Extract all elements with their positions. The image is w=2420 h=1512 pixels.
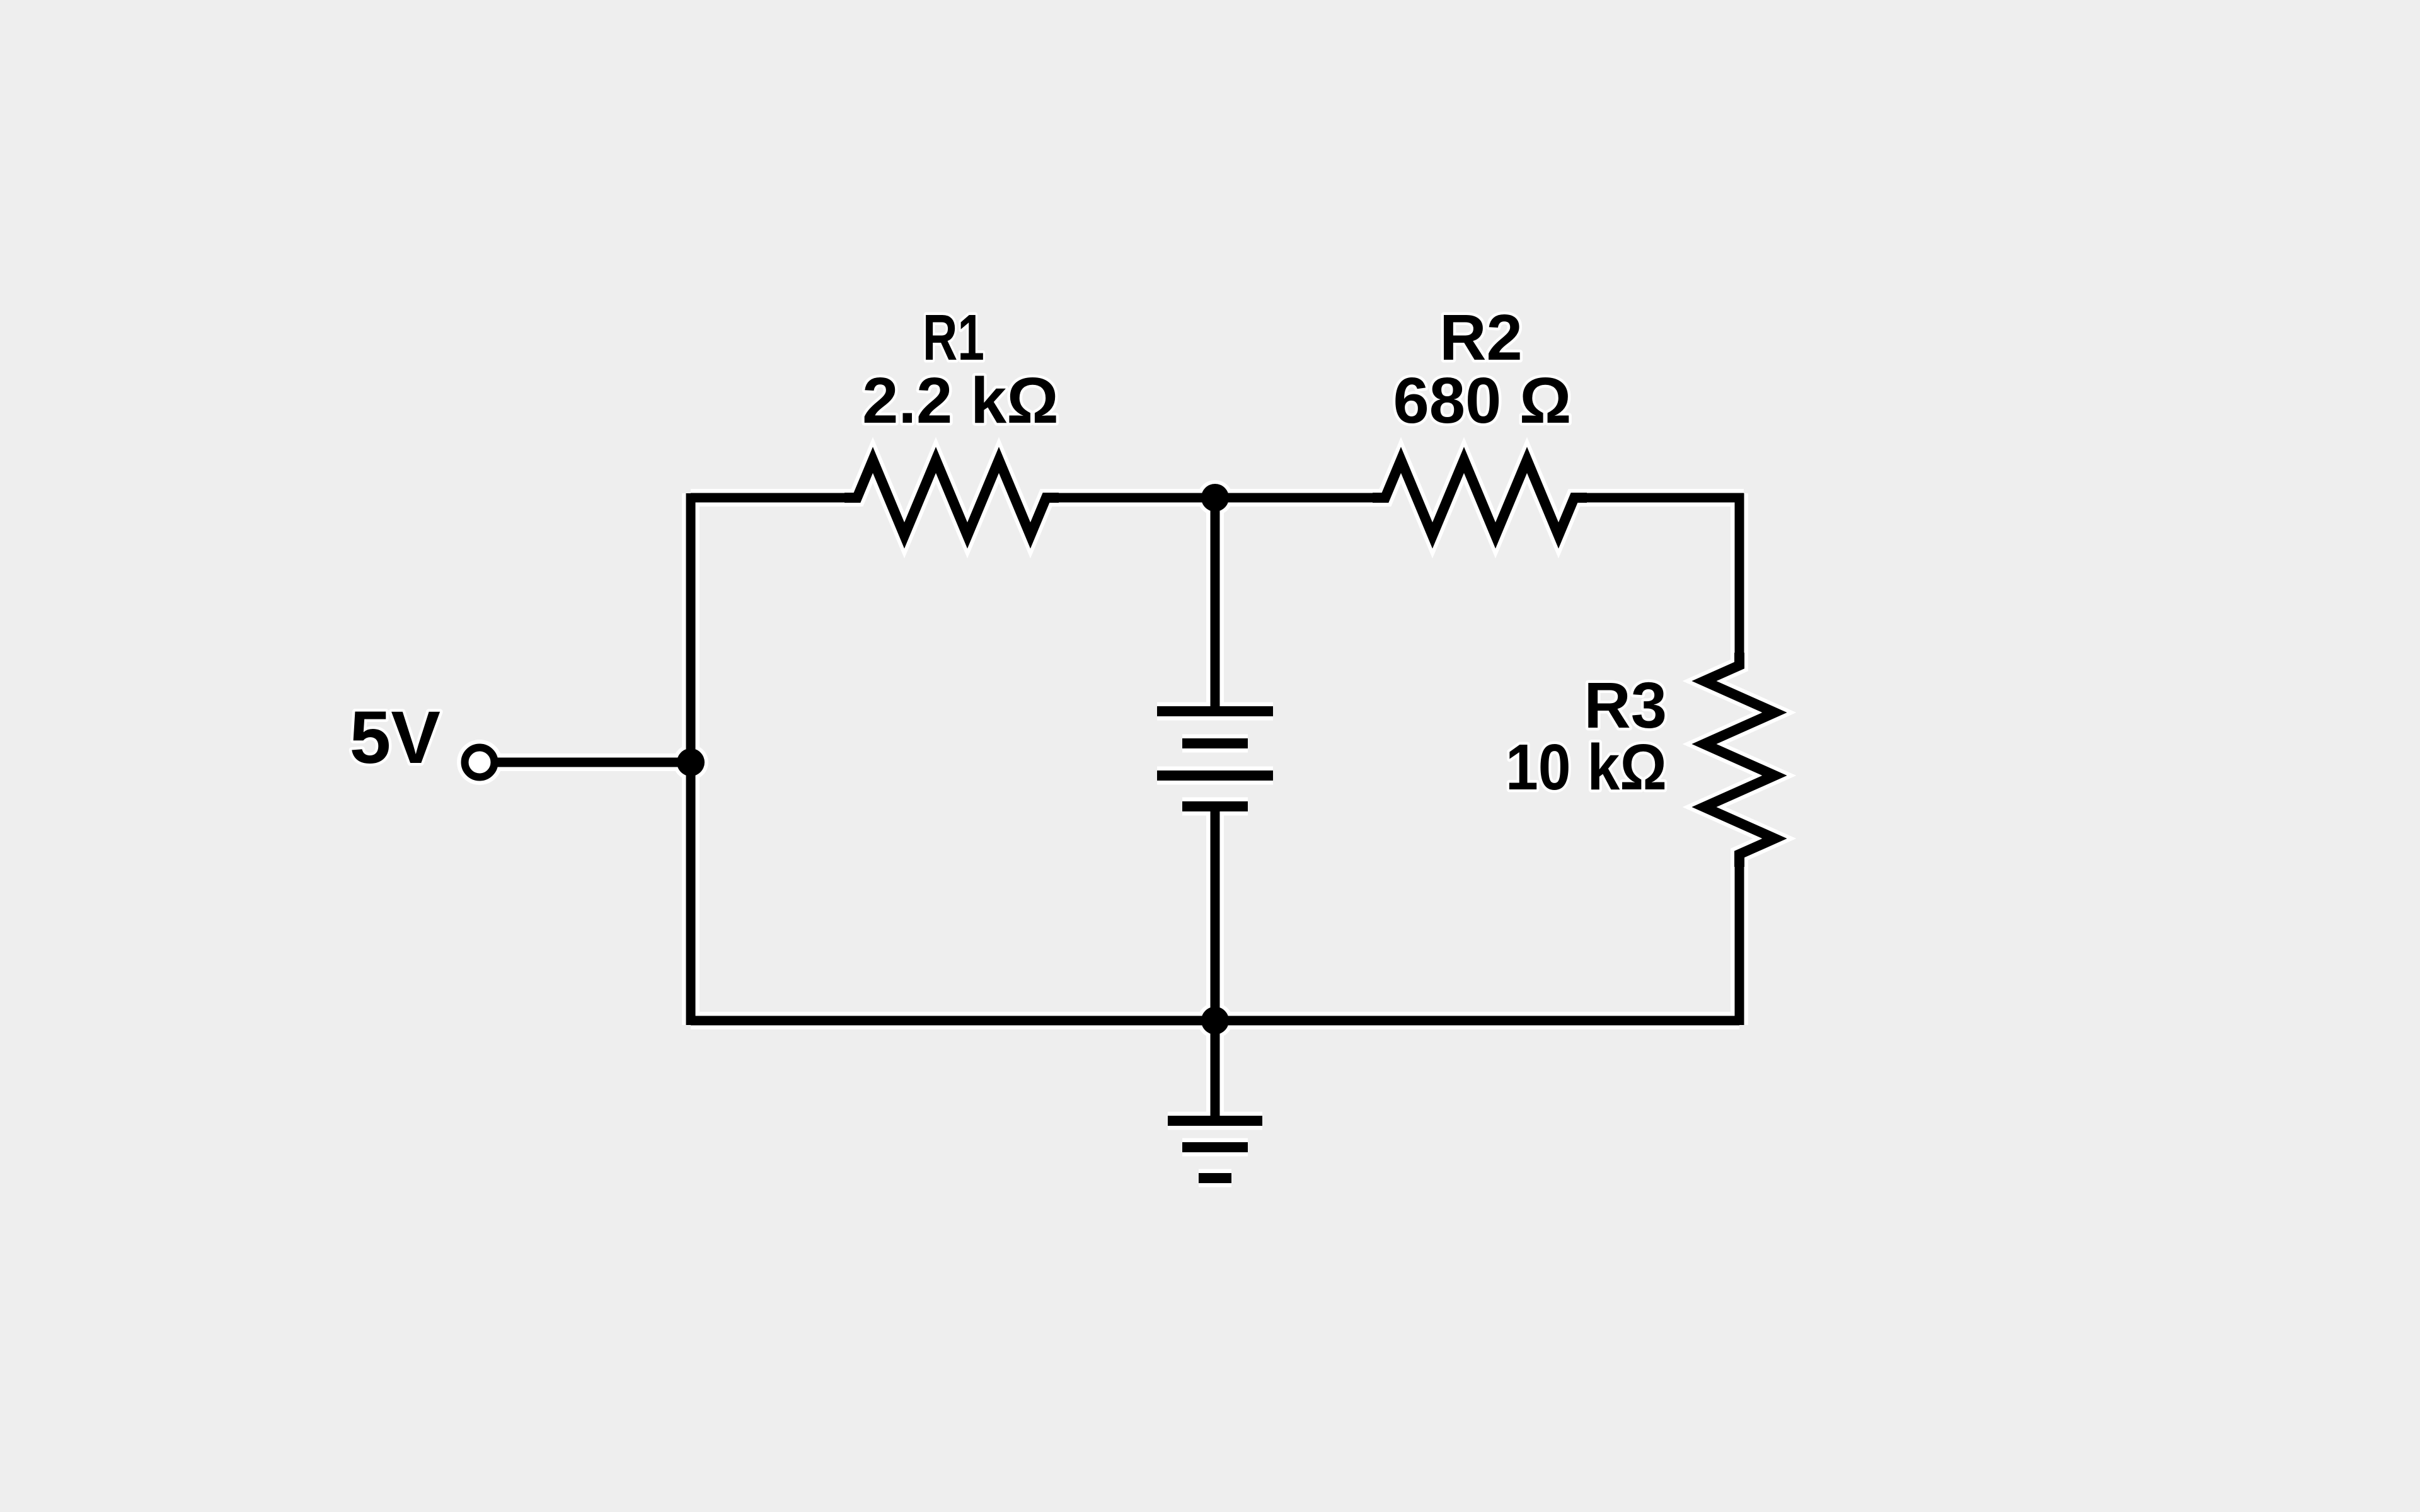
ground bar 2 (1182, 1142, 1248, 1152)
wire right vertical lower (1735, 854, 1744, 1025)
node A (junction dot) (677, 748, 705, 776)
resistor R1 (844, 460, 1059, 535)
svg-text:5V: 5V (350, 696, 441, 779)
terminal 5V (open circle) (465, 748, 495, 777)
wire right vertical upper (1735, 493, 1744, 665)
svg-text:R2: R2 (1439, 301, 1523, 374)
svg-text:680 Ω: 680 Ω (1393, 364, 1571, 437)
battery B1 plate 1 (long) (1157, 706, 1273, 716)
wire top left (691, 493, 857, 503)
resistor R2 (1373, 460, 1587, 535)
wire from 5V terminal to node A (497, 758, 691, 767)
svg-text:10 kΩ: 10 kΩ (1506, 731, 1667, 803)
battery B1 plate 2 (short) (1182, 738, 1248, 748)
resistor R3 (1704, 653, 1775, 867)
node C (junction dot) (1201, 1007, 1229, 1034)
wire from node B down to battery top plate (1211, 498, 1220, 711)
ground bar 3 (1199, 1173, 1231, 1183)
battery B1 plate 3 (long) (1157, 770, 1273, 781)
svg-text:2.2 kΩ: 2.2 kΩ (862, 364, 1059, 437)
wire left vertical (686, 493, 696, 1025)
svg-text:R1: R1 (923, 301, 984, 374)
ground bar 1 (1168, 1116, 1262, 1126)
wire bottom (691, 1016, 1739, 1026)
wire from node C to ground (1211, 1021, 1220, 1121)
wire top middle (1046, 493, 1385, 503)
battery B1 plate 4 (short) (1182, 801, 1248, 811)
wire from battery bottom plate to node C (1211, 806, 1220, 1021)
node B (junction dot) (1201, 484, 1229, 512)
wire top right (1574, 493, 1744, 503)
